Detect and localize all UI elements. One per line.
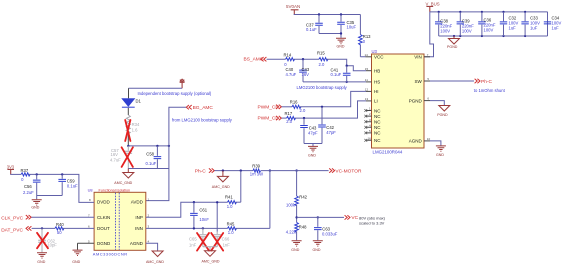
junction dots mid rail — [127, 145, 170, 147]
resistor R14 — [284, 52, 295, 66]
wire DAT_PVC to R40 — [32, 227, 55, 229]
svg-text:CLKIN: CLKIN — [97, 215, 110, 220]
svg-text:10pF: 10pF — [47, 243, 57, 248]
capacitor C35 — [337, 15, 356, 34]
junction dot C42 tap — [321, 106, 323, 108]
junction dot C40 tap — [302, 58, 304, 60]
capacitor C63 — [314, 217, 338, 240]
svg-text:4.7uF: 4.7uF — [286, 72, 297, 77]
svg-text:100V: 100V — [484, 28, 494, 33]
harness connector PWM_CL — [258, 116, 282, 122]
junction dot C62 tap — [41, 227, 43, 229]
svg-text:R37: R37 — [21, 168, 29, 173]
svg-text:C58: C58 — [146, 151, 154, 156]
svg-text:DGND: DGND — [97, 241, 111, 246]
svg-text:16: 16 — [368, 136, 372, 140]
svg-text:8: 8 — [89, 198, 91, 202]
svg-text:NC: NC — [374, 131, 381, 136]
svg-text:AMC_GND: AMC_GND — [114, 181, 132, 185]
svg-text:VC-MOTOR: VC-MOTOR — [335, 169, 362, 175]
red X over C62 — [37, 233, 48, 249]
ground AMC_GND (U8 AGND) — [146, 251, 164, 264]
svg-text:C56: C56 — [24, 184, 32, 189]
capacitor C32 — [500, 12, 519, 36]
svg-text:R16: R16 — [290, 100, 298, 105]
ground AMC_GND (bootstrap) — [114, 169, 134, 186]
ground PGND (cap bank) — [447, 36, 460, 49]
svg-text:Independent bootstrap supply (: Independent bootstrap supply (optional) — [138, 91, 212, 96]
U3 pin HB 15 — [365, 67, 380, 74]
svg-text:DAT_PVC: DAT_PVC — [1, 228, 23, 234]
U3 pin SW 5 — [415, 77, 430, 84]
capacitor C66 (DNP) — [213, 202, 230, 247]
harness connector VC — [345, 215, 359, 221]
wire 3V3 rail to DVDD — [29, 174, 94, 202]
resistor R37 — [21, 168, 31, 182]
svg-text:U8: U8 — [88, 188, 93, 193]
svg-text:AMC_GND: AMC_GND — [202, 260, 220, 264]
svg-text:Functional isolation: Functional isolation — [99, 189, 131, 193]
svg-text:AGND: AGND — [409, 139, 423, 144]
U8 pin DGND 5 — [78, 239, 111, 246]
svg-text:DVDD: DVDD — [97, 199, 111, 204]
svg-text:NC: NC — [374, 138, 381, 143]
svg-text:Ph-C: Ph-C — [481, 79, 492, 85]
svg-text:SW: SW — [415, 79, 423, 84]
svg-text:GND: GND — [37, 260, 45, 264]
svg-text:1.0: 1.0 — [228, 230, 234, 235]
capacitor C43 (filter) — [300, 118, 318, 143]
capacitor C62 (DNP) — [38, 228, 57, 252]
wire V_BUS top rail — [430, 11, 548, 13]
svg-text:NC: NC — [374, 125, 381, 130]
wire PWM_CL to R17 — [282, 117, 287, 119]
wire PGND stub — [430, 101, 444, 106]
wire V_BUS bottom rail — [439, 12, 548, 36]
power symbol 5V0AN — [286, 4, 300, 14]
svg-text:1uF: 1uF — [530, 26, 538, 31]
wire bootstrap mid rail — [128, 145, 169, 147]
svg-text:1.0: 1.0 — [227, 204, 233, 209]
wire R17 to LI — [295, 101, 366, 118]
U3 pin PGND 6 — [409, 97, 430, 104]
svg-text:1.6: 1.6 — [132, 128, 138, 133]
svg-text:NC: NC — [374, 114, 381, 119]
wire bootstrap top — [129, 87, 183, 89]
svg-text:AMC_GND: AMC_GND — [212, 185, 230, 189]
U8 isolation barrier — [116, 193, 120, 250]
svg-text:14: 14 — [365, 53, 369, 57]
wire INP line — [146, 202, 228, 217]
wire R48 to GND — [296, 231, 298, 240]
junction dot C61 top — [193, 201, 195, 203]
svg-text:HI: HI — [374, 89, 379, 94]
svg-text:LMG2100 bootstrap supply: LMG2100 bootstrap supply — [297, 85, 348, 90]
capacitor C38 — [435, 12, 453, 36]
diode D1 — [122, 99, 142, 108]
svg-text:0: 0 — [284, 62, 287, 67]
junction dots 5V0AN rail — [318, 13, 342, 15]
junction dot C66 tap — [216, 201, 218, 203]
ground AMC_GND (C65/C66) — [202, 251, 220, 264]
svg-text:HB: HB — [374, 69, 380, 74]
wire R41 to corner — [236, 201, 241, 203]
svg-text:VCC: VCC — [374, 55, 384, 60]
svg-text:10nF: 10nF — [199, 217, 209, 222]
capacitor C57 (DNP) — [110, 146, 132, 169]
harness connector BG_AMC — [186, 105, 213, 111]
svg-text:4.7uF: 4.7uF — [110, 158, 121, 163]
svg-text:100V: 100V — [462, 29, 472, 34]
svg-text:VIN: VIN — [414, 55, 422, 60]
wire R14 to R15 — [294, 58, 319, 60]
wire VC-MOTOR to R42 — [296, 171, 298, 196]
U8 pin INN 3 — [135, 225, 149, 231]
resistor R17 — [285, 111, 296, 124]
wire HB staircase — [347, 66, 366, 71]
svg-text:PGND: PGND — [447, 45, 458, 49]
svg-text:R17: R17 — [285, 111, 293, 116]
svg-text:BG_AMC: BG_AMC — [193, 105, 214, 111]
wire D1 to R34 — [127, 108, 129, 115]
resistor R41 — [225, 195, 236, 209]
capacitor C40 — [286, 59, 310, 82]
U3 pin VIN 7 — [414, 53, 430, 60]
U3 pin VCC 14 — [365, 53, 385, 60]
U8 pin AVDD 1 — [131, 198, 150, 205]
svg-text:GND: GND — [72, 260, 80, 264]
svg-text:10: 10 — [427, 137, 431, 141]
capacitor C41 — [331, 66, 351, 82]
junction dots cap bank — [438, 11, 527, 37]
U8 pin CLKIN 7 — [88, 214, 110, 220]
svg-text:AVDD: AVDD — [131, 199, 144, 204]
svg-text:PWM_CL: PWM_CL — [258, 116, 279, 122]
capacitor C39 — [457, 12, 475, 36]
svg-text:2.0: 2.0 — [300, 108, 306, 113]
capacitor C65 (DNP) — [189, 228, 207, 247]
junction dot C35 bottom — [340, 32, 342, 34]
svg-text:5: 5 — [88, 239, 90, 243]
U8 pin AGND 4 — [130, 239, 158, 251]
wire SW to Ph-C — [430, 80, 474, 82]
svg-text:HS: HS — [374, 80, 380, 85]
resistor R34 (DNP) — [126, 115, 140, 146]
harness connector BS_AMC — [244, 57, 267, 63]
capacitor C59 — [58, 174, 78, 195]
svg-text:C61: C61 — [199, 208, 207, 213]
wire INN line — [146, 227, 228, 229]
svg-text:INP: INP — [135, 215, 143, 220]
svg-text:LI: LI — [374, 99, 378, 104]
capacitor C56 — [23, 174, 41, 195]
op-amp U3 LMG2100R044 half-bridge — [372, 49, 425, 155]
svg-text:LMG2100R044: LMG2100R044 — [373, 150, 403, 155]
resistor R39 shunt — [250, 164, 263, 177]
svg-text:0: 0 — [21, 177, 24, 182]
wire AGND stub — [430, 141, 441, 146]
svg-text:U3: U3 — [372, 49, 378, 54]
ground GND (5V0AN caps) — [336, 38, 346, 48]
wire Ph-C to R39 — [215, 170, 254, 172]
capacitor C37 — [306, 15, 323, 34]
U3 pin HS 11 — [365, 78, 380, 85]
wire DGND drop — [77, 243, 79, 249]
wire R39 to VC-MOTOR — [261, 170, 329, 172]
resistor R42 — [286, 194, 308, 207]
red X over C57 — [122, 147, 133, 167]
capacitor C33 — [521, 12, 540, 36]
ground GND (U3 AGND) — [436, 146, 446, 157]
harness connector Ph-C (shunt input) — [195, 168, 215, 174]
svg-text:R15: R15 — [317, 51, 325, 56]
svg-text:PGND: PGND — [409, 98, 423, 103]
svg-text:R39: R39 — [252, 164, 260, 169]
junction dots VC node — [295, 216, 319, 218]
svg-text:scaled to 3.3V: scaled to 3.3V — [359, 220, 385, 225]
svg-text:C65: C65 — [189, 236, 197, 241]
svg-text:NC: NC — [374, 108, 381, 113]
svg-text:V_BUS: V_BUS — [426, 1, 440, 6]
wire 3V3 to R37 — [10, 173, 21, 175]
red X over R34 — [125, 120, 130, 141]
svg-text:3V3: 3V3 — [7, 164, 15, 169]
svg-text:AMC3306DCNR: AMC3306DCNR — [93, 251, 128, 256]
svg-text:CLK_PVC: CLK_PVC — [1, 216, 23, 222]
wire HS line — [303, 81, 366, 83]
svg-text:GND: GND — [337, 45, 345, 49]
capacitor C42 (filter) — [318, 107, 336, 144]
ground GND (R48) — [291, 241, 301, 252]
wire 5V0AN rail — [294, 14, 361, 16]
ground GND (C63) — [313, 241, 323, 252]
svg-text:D1: D1 — [136, 99, 142, 104]
wire C56/C59 bottoms — [37, 196, 63, 200]
svg-text:GND: GND — [436, 153, 444, 157]
wire bootstrap bottom rail — [128, 168, 169, 170]
svg-text:VC: VC — [351, 215, 358, 221]
resistor R48 — [286, 222, 307, 234]
svg-text:1nF: 1nF — [223, 243, 231, 248]
svg-text:2.0: 2.0 — [286, 119, 292, 124]
wire CLK_PVC to CLKIN — [31, 216, 94, 218]
svg-text:1m 3W: 1m 3W — [250, 172, 263, 177]
wire VC node to connector — [297, 216, 344, 218]
harness connector CLK_PVC — [1, 215, 31, 222]
capacitor C61 — [190, 202, 209, 228]
resistor R16 — [290, 100, 306, 113]
power symbol (independent bootstrap) — [180, 79, 185, 88]
svg-text:Ph-C: Ph-C — [195, 169, 206, 175]
harness connector VC-MOTOR — [329, 168, 362, 174]
svg-text:GND: GND — [291, 248, 299, 252]
resistor R13 — [359, 15, 372, 57]
svg-text:100k: 100k — [286, 202, 296, 207]
svg-text:47pF: 47pF — [326, 130, 336, 135]
svg-text:GND: GND — [308, 154, 316, 158]
wire R40 to DOUT — [63, 227, 94, 229]
junction dots 3V3 rail — [36, 173, 64, 175]
svg-text:16V: 16V — [111, 152, 119, 157]
svg-text:50: 50 — [57, 230, 62, 235]
resistor R15 — [317, 51, 328, 67]
note 80V abs max — [359, 215, 386, 225]
svg-text:0.1uF: 0.1uF — [67, 184, 78, 189]
U3 NC pins 1-5,16 — [364, 107, 381, 144]
wire BG_AMC to U8 AVDD — [146, 107, 186, 200]
op-amp U8 AMC isolated modulator — [88, 188, 146, 257]
capacitor C34 — [544, 12, 562, 36]
U8 pin DOUT 6 — [88, 225, 110, 231]
svg-text:1uF: 1uF — [509, 26, 517, 31]
ground AMC_GND (shunt) — [212, 171, 230, 189]
U8 pin DVDD 8 — [89, 198, 111, 204]
wire V_BUS to VIN jog — [424, 12, 434, 57]
wire R45 to shunt line — [236, 171, 270, 229]
power symbol V_BUS — [426, 1, 440, 12]
ground PGND (U3) — [437, 106, 450, 117]
junction dots INN line — [193, 227, 204, 229]
wire C65/C66 bottoms — [203, 247, 217, 251]
svg-text:1uF: 1uF — [552, 26, 560, 31]
svg-text:AGND: AGND — [130, 241, 144, 246]
resistor R45 — [227, 222, 237, 235]
svg-text:16V: 16V — [302, 72, 310, 77]
svg-text:0.1uF: 0.1uF — [306, 27, 317, 32]
svg-text:DOUT: DOUT — [97, 226, 110, 231]
wire PWM_CH to R16 — [282, 106, 292, 108]
svg-text:R41: R41 — [225, 195, 233, 200]
junction dots shunt line — [222, 169, 298, 171]
U8 pin INP 2 — [135, 214, 149, 220]
svg-text:R42: R42 — [299, 194, 307, 199]
svg-text:0.1uF: 0.1uF — [331, 72, 342, 77]
svg-text:R45: R45 — [227, 222, 235, 227]
svg-text:1nF: 1nF — [189, 243, 197, 248]
wire C37/C35 bottoms — [319, 34, 341, 38]
svg-text:INN: INN — [135, 226, 143, 231]
harness connector PWM_CH — [258, 104, 282, 110]
capacitor C58 — [146, 146, 162, 169]
red X over C66 — [211, 233, 223, 251]
junction dot C43 tap — [303, 117, 305, 119]
svg-text:2.2uF: 2.2uF — [23, 190, 34, 195]
svg-text:GND: GND — [31, 205, 39, 209]
capacitor C36 — [478, 12, 496, 36]
junction dots C41 — [346, 65, 348, 84]
ground GND (U8 DGND) — [72, 250, 82, 264]
power symbol 3V3 — [7, 164, 15, 174]
svg-text:0: 0 — [363, 39, 366, 44]
ground GND (C62) — [37, 253, 47, 264]
svg-text:to 1mOhm shunt: to 1mOhm shunt — [474, 88, 506, 93]
svg-text:R48: R48 — [299, 225, 307, 230]
svg-text:4: 4 — [148, 239, 150, 243]
svg-text:4.22k: 4.22k — [286, 230, 297, 235]
wire R42 to VC node — [296, 205, 298, 223]
red X over C65 — [197, 233, 209, 251]
svg-text:PGND: PGND — [437, 113, 448, 117]
svg-text:100V: 100V — [440, 29, 450, 34]
wire BS_AMC to R14 — [267, 58, 286, 60]
harness connector Ph-C (SW output) — [475, 79, 493, 85]
wire R16 to HI — [300, 91, 366, 106]
U3 pin HI 12 — [365, 88, 379, 95]
svg-text:C66: C66 — [222, 236, 230, 241]
resistor R40 — [55, 222, 64, 235]
svg-text:47pF: 47pF — [308, 130, 318, 135]
U3 pin AGND 10 — [409, 137, 431, 144]
svg-text:GND: GND — [313, 248, 321, 252]
svg-text:10uF: 10uF — [347, 24, 357, 29]
wire C42/C43 bottoms — [304, 144, 322, 147]
harness connector DAT_PVC — [1, 226, 31, 233]
ground GND (3V3 caps) — [31, 200, 41, 210]
svg-text:R34: R34 — [132, 122, 140, 127]
wire R15 to HB network — [327, 59, 347, 65]
svg-text:R14: R14 — [284, 52, 292, 57]
wire R41 branch — [240, 171, 242, 203]
svg-text:0.033uF: 0.033uF — [322, 231, 338, 236]
svg-text:5V0AN: 5V0AN — [286, 4, 300, 9]
svg-text:2.0: 2.0 — [319, 62, 325, 67]
svg-text:NC: NC — [374, 120, 381, 125]
U3 pin LI 13 — [365, 97, 378, 104]
ground GND (PWM filter) — [308, 146, 318, 157]
svg-text:from LMG2100 bootstrap supply: from LMG2100 bootstrap supply — [172, 117, 233, 122]
svg-text:AMC_GND: AMC_GND — [146, 260, 164, 264]
svg-text:0.1uF: 0.1uF — [146, 161, 157, 166]
svg-text:R40: R40 — [56, 222, 64, 227]
